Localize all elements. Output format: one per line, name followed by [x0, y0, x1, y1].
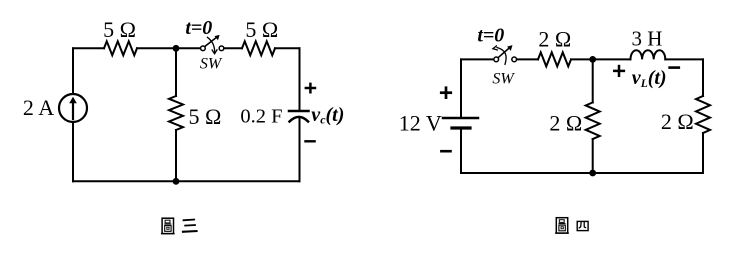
wire left side upper — [72, 48, 74, 94]
svg-text:2 Ω: 2 Ω — [661, 109, 694, 134]
wire R3 to bottom node — [175, 130, 177, 181]
wire node down to R3 — [175, 48, 177, 96]
svg-text:vL(t): vL(t) — [632, 67, 667, 90]
wire inductor to top-right corner — [665, 58, 703, 60]
svg-text:0.2 F: 0.2 F — [240, 105, 282, 127]
wire R4 to node — [571, 58, 593, 60]
label plus vL — [613, 65, 625, 77]
label minus vL — [668, 66, 680, 69]
node junction bottom — [589, 170, 596, 177]
wire capacitor to bottom-right corner — [299, 118, 301, 182]
wire node to switch — [176, 47, 200, 49]
switch SW2 blade with arrowhead — [499, 45, 513, 57]
wire left side lower of right circuit — [460, 129, 462, 173]
switch SW1 closing arc arrow — [207, 37, 217, 54]
resistor R 5ohm top-right — [242, 41, 275, 55]
wire right side lower — [702, 133, 704, 173]
svg-text:SW: SW — [492, 71, 515, 88]
svg-text:2 A: 2 A — [23, 95, 54, 120]
wire node to R5 — [592, 59, 594, 102]
glyph 圖 of Fig3 — [161, 218, 175, 233]
svg-text:t=0: t=0 — [185, 17, 212, 39]
svg-text:SW: SW — [200, 56, 223, 73]
caption Figure 4 (圖四) hand-drawn glyphs — [555, 218, 588, 233]
node junction top middle — [173, 45, 180, 52]
inductor L 3H — [631, 50, 666, 59]
wire left side lower — [72, 122, 74, 181]
battery V1 12V long plate — [443, 117, 478, 120]
glyph 三 of Fig3 — [182, 220, 198, 232]
wire switch to R4 — [517, 58, 538, 60]
switch SW2 right contact — [512, 57, 517, 62]
svg-text:2 Ω: 2 Ω — [549, 110, 582, 135]
wire left side upper of right circuit — [460, 59, 462, 118]
switch SW2 opening arc arrow — [493, 46, 506, 64]
glyph 圖 of Fig4 — [555, 218, 569, 233]
node junction bottom middle — [173, 178, 180, 185]
svg-text:2 Ω: 2 Ω — [538, 26, 571, 51]
label plus capacitor — [305, 83, 317, 94]
wire switch to R2 — [224, 47, 242, 49]
wire bottom of right circuit — [461, 172, 703, 174]
svg-text:5 Ω: 5 Ω — [245, 17, 278, 42]
capacitor C 0.2F top plate — [289, 110, 309, 113]
resistor R 2ohm right vertical — [696, 96, 710, 133]
wire bottom of left circuit — [73, 180, 300, 182]
label minus capacitor — [304, 140, 316, 142]
glyph 四 of Fig4 — [577, 221, 588, 230]
svg-text:3 H: 3 H — [632, 27, 663, 51]
svg-text:t=0: t=0 — [477, 25, 504, 47]
wire middle branch lower — [592, 139, 594, 173]
current source I1 2A — [59, 94, 87, 122]
switch SW1 right contact — [219, 46, 224, 51]
resistor R 5ohm top-left — [104, 41, 137, 55]
label minus battery — [440, 150, 452, 153]
switch SW2 left contact — [494, 57, 499, 62]
svg-text:5 Ω: 5 Ω — [103, 17, 136, 42]
svg-text:vc(t): vc(t) — [311, 104, 344, 127]
wire node to inductor — [593, 58, 631, 60]
wire right side down to capacitor — [299, 48, 301, 110]
capacitor C 0.2F curved plate — [290, 117, 309, 122]
wire top-left segment — [73, 47, 104, 49]
wire right side upper — [702, 59, 704, 96]
svg-text:12 V: 12 V — [399, 111, 442, 136]
svg-text:5 Ω: 5 Ω — [188, 104, 221, 129]
node junction top — [589, 56, 596, 63]
battery V1 12V short plate — [452, 126, 470, 129]
resistor R 5ohm middle vertical — [169, 96, 183, 130]
resistor R 2ohm top — [538, 52, 571, 66]
label plus battery — [440, 86, 452, 99]
resistor R 2ohm middle vertical — [586, 102, 600, 139]
switch SW1 blade with arrowhead — [205, 35, 220, 46]
caption Figure 3 (圖三) hand-drawn glyphs — [161, 218, 198, 233]
wire R1 to node — [137, 47, 176, 49]
wire R2 to top-right corner — [275, 47, 300, 49]
wire top-left of right circuit — [461, 58, 494, 60]
switch SW1 left contact — [201, 46, 206, 51]
